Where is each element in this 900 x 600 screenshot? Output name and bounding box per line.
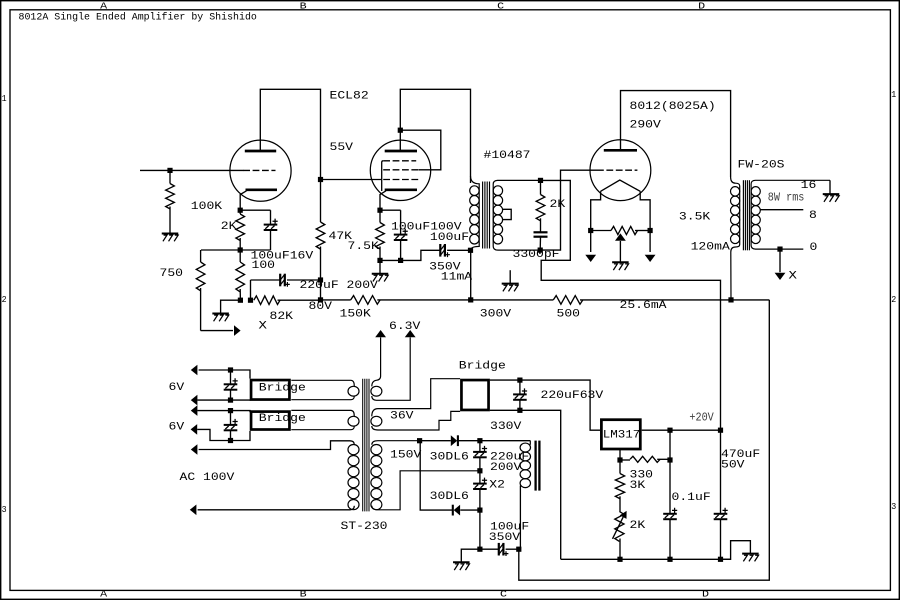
resistor R 47K plate load — [320, 180, 322, 223]
capacitor C 220uF63V — [519, 380, 521, 394]
svg-text:25.6mA: 25.6mA — [620, 300, 668, 312]
wire V1 plate to B+ top rail — [260, 89, 320, 179]
node 220uF63V bottom junction — [517, 408, 522, 413]
arrow filament right supply — [645, 255, 656, 262]
ground under 7.5K — [379, 260, 381, 273]
wire 0 tap to speaker common — [779, 249, 781, 272]
transformer T3 winding L2 6V — [348, 416, 359, 426]
ground regulator common — [742, 553, 759, 555]
node filament left junction — [588, 228, 593, 233]
wire feedback to arrow X — [201, 330, 233, 332]
node cap2 bottom junction — [228, 438, 233, 443]
ground doubler common — [453, 561, 470, 563]
arrow 6V output a1 — [191, 365, 198, 376]
node +20V 0.1uF junction — [667, 428, 672, 433]
bridge rectifier 1 box — [251, 380, 289, 400]
tube V3 grid dashes — [597, 169, 637, 171]
svg-text:8W rms: 8W rms — [768, 191, 805, 205]
svg-text:50V: 50V — [721, 459, 745, 471]
tube V3 8012 envelope — [590, 140, 651, 201]
arrow AC mains a5 — [191, 444, 198, 455]
transformer T2 secondary winding — [751, 180, 830, 249]
svg-text:82K: 82K — [270, 311, 294, 323]
node B+ row FW-20S junction — [728, 297, 733, 302]
arrow AC mains a6 — [190, 505, 197, 516]
potentiometer hum balance — [591, 230, 611, 232]
node 100uF350V left junction — [477, 547, 482, 552]
capacitor C filament filter 2 — [230, 411, 232, 425]
svg-text:B: B — [300, 589, 307, 600]
resistor R 2K damper — [540, 180, 542, 194]
svg-text:100: 100 — [252, 260, 276, 272]
wire V1 plate node to V2 grid — [321, 179, 383, 181]
wire V2 plate to B+ top rail — [400, 89, 470, 183]
resistor R 3K adj — [619, 460, 621, 474]
node 330 right junction — [667, 457, 672, 462]
arrow 2K pot wiper — [613, 515, 625, 539]
transformer T3 winding R1 6.3V — [371, 386, 382, 396]
svg-text:C: C — [500, 589, 507, 600]
arrow 6.3V left — [375, 330, 386, 337]
tube V1 plate — [245, 150, 276, 153]
wire T1 top to +20V routing — [541, 180, 721, 430]
wire 6.3V left riser — [372, 337, 381, 386]
transformer T3 winding R2 36V — [371, 416, 382, 426]
svg-text:X: X — [259, 321, 268, 333]
node T1 secondary top junction — [538, 178, 543, 183]
svg-text:750: 750 — [160, 268, 184, 280]
tube V3 plate — [604, 149, 637, 152]
svg-text:500: 500 — [557, 309, 581, 321]
svg-text:ST-230: ST-230 — [341, 521, 388, 533]
wire 36V bottom staircase to bridge3 — [372, 411, 460, 430]
node V2 plate/g2 junction — [398, 128, 403, 133]
arrow filament left supply — [585, 255, 596, 262]
resistor R 82K grid — [254, 296, 280, 305]
svg-text:36V: 36V — [390, 410, 414, 422]
node bypass bottom junction — [398, 258, 403, 263]
transformer T3 core — [362, 379, 364, 512]
ground 16 ohm tap — [829, 180, 831, 194]
svg-text:D: D — [698, 1, 705, 12]
svg-text:A: A — [100, 589, 107, 600]
resistor R 150K dropper — [321, 299, 351, 301]
wire bridge3 DC+ to LM317 input — [490, 380, 600, 430]
arrow speaker common X — [775, 273, 786, 280]
node 100uF350V right junction — [516, 547, 521, 552]
node rail 2K junction — [617, 557, 622, 562]
svg-text:30DL6: 30DL6 — [430, 451, 469, 463]
wire AC mains bottom to primary L3 — [198, 506, 355, 510]
node 80V junction on B+ row — [318, 297, 323, 302]
wire V2 g2 to plate strap — [400, 130, 441, 170]
resistor R 330 program — [620, 459, 630, 461]
svg-text:3: 3 — [891, 501, 896, 512]
svg-text:3.5K: 3.5K — [679, 211, 711, 223]
resistor R 100 cathode lower — [239, 250, 241, 262]
svg-text:2: 2 — [891, 294, 896, 305]
node doubler midpoint junction — [477, 468, 482, 473]
arrow 6V output a3 — [191, 405, 198, 416]
svg-text:220uF63V: 220uF63V — [541, 390, 605, 402]
arrow 6.3V right — [405, 330, 416, 337]
svg-text:Bridge: Bridge — [459, 361, 506, 373]
wire V3 filament left lead — [591, 191, 601, 230]
wire reservoir to ground — [461, 549, 480, 562]
svg-text:7.5K: 7.5K — [348, 241, 380, 253]
node interstage primary bottom junction — [468, 248, 473, 253]
node ADJ junction — [617, 457, 622, 462]
wire V3 filament right lead — [640, 191, 650, 230]
svg-text:11mA: 11mA — [441, 271, 473, 283]
resistor R 100K grid leak — [169, 170, 171, 183]
wire 220uF row riser — [250, 280, 252, 300]
node 7.5K bottom junction — [377, 258, 382, 263]
wire LM317 output +20V rail — [642, 429, 721, 431]
wire bridge2 AC bottom to winding L2 — [291, 426, 354, 430]
tube V2 screen grid g2 dashes — [383, 169, 418, 171]
tube V2 plate — [385, 150, 417, 153]
transformer T1 secondary winding — [493, 180, 540, 250]
svg-text:100uF: 100uF — [430, 232, 469, 244]
svg-text:120mA: 120mA — [691, 241, 731, 253]
capacitor C 3300pF damper — [534, 231, 548, 233]
transformer T1 core — [482, 182, 484, 249]
wire input to V1 grid — [140, 169, 244, 171]
wire a2 row to bridge1 DC- — [197, 399, 250, 401]
transformer T2 primary winding — [731, 177, 740, 300]
wire LM317 ADJ lead — [619, 450, 621, 460]
node 220uF63V top junction — [517, 378, 522, 383]
tube V2 suppressor g3 dashes — [383, 160, 416, 162]
svg-text:LM317: LM317 — [603, 430, 641, 442]
wire 150V top stub — [372, 441, 420, 445]
wire primary bottom to B+ row — [470, 250, 472, 300]
tube V1 grid dashes — [243, 169, 275, 171]
capacitor C filament filter 1 — [230, 370, 232, 384]
svg-text:80V: 80V — [309, 301, 333, 313]
tube V2 ECL82 pentode envelope — [370, 140, 430, 200]
node V2 cathode junction — [377, 208, 382, 213]
choke filter winding — [520, 443, 530, 452]
node 82K left junction — [248, 298, 253, 303]
wire bridge1 AC top to winding L1 — [291, 380, 354, 386]
wire V3 grid riser — [540, 170, 597, 250]
resistor R 2K cathode — [239, 210, 241, 214]
node rail 470uF junction — [718, 557, 723, 562]
resistor R 7.5K cathode — [379, 210, 381, 222]
svg-text:290V: 290V — [630, 120, 662, 132]
transformer T3 winding R3 150V — [371, 445, 382, 455]
tube V1 cathode — [246, 188, 278, 191]
capacitor C 470uF 50V output — [720, 430, 722, 513]
node cap1 bottom junction — [228, 398, 233, 403]
svg-text:C: C — [497, 1, 504, 12]
svg-text:+20V: +20V — [689, 410, 714, 424]
svg-text:B: B — [300, 1, 307, 12]
svg-text:150V: 150V — [390, 450, 422, 462]
transformer T2 core — [742, 180, 744, 250]
bridge rectifier 2 box — [251, 412, 289, 430]
svg-text:3K: 3K — [630, 480, 646, 492]
capacitor C 220uF 200V doubler upper — [479, 441, 481, 452]
arrow feedback X output — [234, 325, 241, 336]
wire coupling riser — [401, 250, 441, 260]
svg-text:1: 1 — [2, 93, 7, 104]
svg-text:8012A Single Ended Amplifier b: 8012A Single Ended Amplifier by Shishido — [19, 12, 257, 24]
svg-text:350V: 350V — [489, 532, 521, 544]
wire a4 jog to bridge2 DC- — [197, 429, 250, 440]
node V2 grid junction — [318, 177, 323, 182]
svg-text:ECL82: ECL82 — [330, 90, 369, 102]
svg-text:2K: 2K — [550, 199, 566, 211]
node doubler top-left junction — [417, 438, 422, 443]
regulator U1 LM317 box — [601, 420, 640, 449]
wire bridge2 AC top to winding L2 — [291, 410, 354, 416]
svg-text:Bridge: Bridge — [259, 382, 306, 394]
wire a3 row to bridge2 DC+ — [197, 411, 250, 413]
svg-text:330V: 330V — [490, 421, 522, 433]
ground under 100K — [162, 233, 179, 235]
wire regulator common rail — [561, 558, 731, 560]
svg-text:1: 1 — [891, 89, 896, 100]
svg-text:55V: 55V — [330, 142, 354, 154]
transformer T1 primary winding — [471, 176, 480, 250]
svg-text:Bridge: Bridge — [259, 413, 306, 425]
wire 150V bottom stub — [372, 471, 480, 510]
capacitor C 220uF 200V doubler lower — [479, 471, 481, 484]
svg-text:X2: X2 — [489, 480, 505, 492]
wire 6.3V right riser — [372, 337, 410, 400]
ground interstage shield — [509, 270, 511, 283]
transformer T3 primary L3 winding — [348, 445, 359, 455]
node T1 secondary bottom junction — [538, 248, 543, 253]
diode D1 30DL6 upper — [420, 440, 451, 442]
wire bridge1 AC bottom to winding L1 — [291, 396, 354, 400]
potentiometer R 2K adj — [615, 511, 624, 541]
arrow 6V return a2 — [191, 395, 198, 406]
wire doubler top to choke — [480, 440, 531, 442]
wire AC mains top to primary L3 — [199, 441, 355, 450]
node V1 cathode junction — [238, 208, 243, 213]
ground hum pot wiper — [612, 261, 629, 263]
svg-text:0.1uF: 0.1uF — [672, 492, 711, 504]
node cap2 top junction — [228, 408, 233, 413]
svg-text:2: 2 — [2, 294, 7, 305]
svg-text:A: A — [100, 1, 107, 12]
svg-text:6V: 6V — [169, 382, 185, 394]
svg-text:D: D — [702, 589, 709, 600]
svg-text:220uF 200V: 220uF 200V — [300, 280, 379, 292]
node filament right junction — [648, 228, 653, 233]
node 220uF wire junction — [318, 277, 323, 282]
node 0 tap junction — [777, 247, 782, 252]
svg-text:FW-20S: FW-20S — [738, 160, 785, 172]
svg-text:AC 100V: AC 100V — [180, 472, 236, 484]
node doubler negative junction — [477, 508, 482, 513]
wire B+ right riser down — [519, 300, 770, 580]
wire filament left drop — [590, 231, 592, 253]
wire 36V top to bridge3 — [372, 379, 460, 417]
transformer T3 winding L1 6V — [348, 386, 359, 396]
node 100-bottom junction — [238, 298, 243, 303]
tube V2 g3-cathode strap — [382, 161, 384, 191]
svg-text:8012(8025A): 8012(8025A) — [630, 101, 716, 113]
capacitor C 100uF100V cathode bypass — [380, 209, 401, 211]
tube V2 cathode — [385, 188, 417, 191]
svg-text:3: 3 — [2, 504, 7, 515]
wire to ground branch — [221, 300, 241, 313]
wire V2 cathode lead — [380, 191, 386, 210]
wire bridge3 DC- to common rail — [490, 410, 561, 559]
svg-text:2K: 2K — [221, 221, 237, 233]
svg-text:30DL6: 30DL6 — [430, 491, 469, 503]
transformer T1 secondary tap stub — [503, 209, 512, 219]
node cap1 top junction — [228, 367, 233, 372]
svg-text:100K: 100K — [191, 201, 223, 213]
resistor R 500 dropper — [471, 299, 554, 301]
tube V1 ECL82 triode envelope — [230, 140, 291, 201]
svg-text:#10487: #10487 — [484, 150, 531, 162]
node +20V 470uF junction — [718, 428, 723, 433]
capacitor C 100uF16V cathode bypass — [240, 209, 270, 211]
wire V1 cathode lead — [240, 191, 246, 210]
node 2K/100 junction — [238, 247, 243, 252]
svg-text:8: 8 — [809, 210, 817, 222]
choke core bars — [534, 441, 536, 491]
diode D2 30DL6 lower — [420, 441, 452, 510]
node doubler top-right junction — [477, 438, 482, 443]
capacitor C 100uF 350V coupling — [439, 244, 441, 257]
wire filament right drop — [649, 231, 651, 253]
svg-text:2K: 2K — [630, 520, 646, 532]
resistor R 750 feedback — [201, 249, 240, 251]
capacitor C 0.1uF output — [669, 430, 671, 460]
tube V2 control grid g1 dashes — [383, 179, 418, 181]
svg-text:300V: 300V — [480, 309, 512, 321]
ground under cathode branch — [212, 313, 229, 315]
svg-text:200V: 200V — [490, 462, 522, 474]
wire rail to ground jog — [721, 541, 751, 560]
arrow 6V return a4 — [191, 424, 198, 435]
wire V3 plate to output transformer — [621, 91, 731, 177]
node input junction — [167, 168, 172, 173]
bridge rectifier 3 box — [461, 380, 488, 410]
capacitor C 220uF 200V coupling — [279, 274, 281, 287]
arrow hum pot wiper — [615, 233, 626, 240]
capacitor C 100uF 350V reservoir — [480, 548, 499, 550]
svg-text:X: X — [789, 271, 798, 283]
svg-text:150K: 150K — [340, 309, 372, 321]
svg-text:0: 0 — [810, 242, 818, 254]
wire a1 row to bridge1 DC+ — [199, 370, 250, 379]
wire doubler neg column down — [479, 510, 481, 549]
wire 8 ohm tap — [760, 209, 803, 211]
svg-text:6.3V: 6.3V — [389, 321, 421, 333]
node B+ row interstage junction — [468, 297, 473, 302]
svg-text:6V: 6V — [169, 422, 185, 434]
wire B+ row to right riser — [731, 299, 769, 301]
node rail 0.1uF junction — [667, 557, 672, 562]
tube V3 filament — [601, 180, 641, 191]
